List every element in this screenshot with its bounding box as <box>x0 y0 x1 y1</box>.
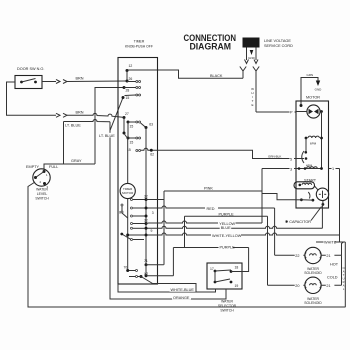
svg-text:32: 32 <box>144 194 148 198</box>
svg-text:DIAGRAM: DIAGRAM <box>190 41 232 51</box>
svg-text:62: 62 <box>150 152 154 156</box>
svg-text:12: 12 <box>129 64 133 68</box>
svg-text:✱ CAPACITOR: ✱ CAPACITOR <box>285 220 311 224</box>
svg-text:28: 28 <box>126 89 130 93</box>
svg-text:COLD: COLD <box>327 276 338 280</box>
svg-text:21: 21 <box>326 284 330 288</box>
svg-text:4PM: 4PM <box>306 163 313 167</box>
svg-text:BRN: BRN <box>76 110 84 114</box>
svg-text:22: 22 <box>295 254 299 258</box>
svg-text:21: 21 <box>326 254 330 258</box>
svg-text:WHITE-BLUE: WHITE-BLUE <box>171 288 195 292</box>
svg-text:WHITE-YELLOW: WHITE-YELLOW <box>212 234 242 238</box>
svg-text:15: 15 <box>130 141 134 145</box>
svg-text:5: 5 <box>290 158 292 162</box>
svg-text:A: A <box>343 270 345 274</box>
svg-text:GRAY: GRAY <box>71 159 82 163</box>
svg-text:PINK: PINK <box>204 187 213 191</box>
svg-text:TIMER: TIMER <box>134 40 145 44</box>
svg-text:WHITE: WHITE <box>324 241 337 245</box>
svg-text:26: 26 <box>129 77 133 81</box>
svg-text:70: 70 <box>124 265 128 269</box>
svg-text:8: 8 <box>119 211 121 215</box>
svg-text:18: 18 <box>235 266 239 270</box>
svg-text:17: 17 <box>210 267 214 271</box>
svg-text:SOLENOID: SOLENOID <box>304 301 322 305</box>
svg-text:EMPTY: EMPTY <box>26 165 40 169</box>
svg-text:ORANGE: ORANGE <box>173 296 190 300</box>
svg-text:GND: GND <box>248 56 256 60</box>
svg-text:KNOB-PUSH OFF: KNOB-PUSH OFF <box>125 45 153 49</box>
svg-text:GND: GND <box>315 88 323 92</box>
svg-text:15: 15 <box>130 125 134 129</box>
svg-text:3: 3 <box>290 168 292 172</box>
svg-text:WATER: WATER <box>221 300 233 304</box>
svg-text:9: 9 <box>151 229 153 233</box>
svg-text:DOOR SW N.O.: DOOR SW N.O. <box>17 67 44 71</box>
svg-text:32: 32 <box>144 219 148 223</box>
svg-text:SWITCH: SWITCH <box>35 197 49 201</box>
svg-text:LT. BLUE: LT. BLUE <box>99 134 115 138</box>
svg-text:1: 1 <box>332 167 334 171</box>
svg-text:15: 15 <box>126 96 130 100</box>
svg-text:PURPLE: PURPLE <box>220 245 236 249</box>
svg-text:GRN-BLK: GRN-BLK <box>268 155 281 159</box>
svg-text:A: A <box>343 284 345 288</box>
svg-text:BLUE: BLUE <box>221 226 231 230</box>
svg-text:SOLENOID: SOLENOID <box>304 271 322 275</box>
svg-text:PURPLE: PURPLE <box>219 212 235 216</box>
svg-text:SERVICE CORD: SERVICE CORD <box>264 44 293 48</box>
svg-text:BLACK: BLACK <box>210 74 223 78</box>
svg-text:RED: RED <box>207 207 215 211</box>
svg-text:U: U <box>343 277 345 281</box>
svg-text:63: 63 <box>149 123 153 127</box>
svg-text:MOTOR: MOTOR <box>122 191 134 195</box>
svg-text:6PM: 6PM <box>310 142 317 146</box>
svg-text:WATER: WATER <box>36 188 48 192</box>
svg-text:HOT: HOT <box>330 263 339 267</box>
svg-text:20: 20 <box>295 284 299 288</box>
svg-text:LINE VOLTAGE: LINE VOLTAGE <box>264 39 291 43</box>
svg-text:27: 27 <box>125 112 129 116</box>
svg-text:SWITCH: SWITCH <box>220 309 234 313</box>
svg-text:GRN: GRN <box>307 73 314 77</box>
svg-text:FULL: FULL <box>49 165 58 169</box>
svg-text:LEVEL: LEVEL <box>37 192 48 196</box>
svg-text:3: 3 <box>152 211 154 215</box>
svg-text:BRN: BRN <box>76 77 84 81</box>
svg-text:E: E <box>251 103 253 107</box>
svg-text:19: 19 <box>235 284 239 288</box>
svg-text:SELECTOR: SELECTOR <box>218 304 237 308</box>
svg-text:MOTOR: MOTOR <box>306 96 320 100</box>
svg-text:R: R <box>343 280 345 284</box>
svg-text:LT. BLUE: LT. BLUE <box>65 124 81 128</box>
svg-text:71: 71 <box>144 259 148 263</box>
svg-text:N: N <box>343 266 345 270</box>
